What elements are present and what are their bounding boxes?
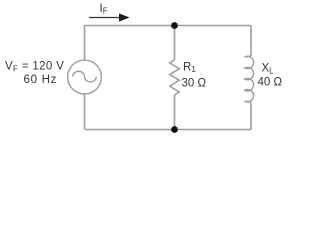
node junction dot bottom xyxy=(171,126,178,133)
resistor R1 zigzag xyxy=(170,60,180,95)
wire top horizontal xyxy=(85,25,252,27)
ac source V_F circle xyxy=(68,60,102,94)
svg-text:40 Ω: 40 Ω xyxy=(258,77,283,89)
wire middle branch top lead xyxy=(174,26,176,61)
wire right branch bottom lead xyxy=(250,104,252,130)
node junction dot top xyxy=(171,22,178,29)
current arrow IF xyxy=(89,17,121,19)
svg-text:60 Hz: 60 Hz xyxy=(24,74,58,86)
wire bottom horizontal xyxy=(85,129,252,131)
svg-text:30 Ω: 30 Ω xyxy=(182,77,207,89)
wire right branch top lead xyxy=(250,26,252,55)
wire middle branch bottom lead xyxy=(174,95,176,130)
wire left vertical lower xyxy=(84,94,86,130)
inductor XL coil xyxy=(245,55,254,104)
ac source sine wave xyxy=(73,71,97,82)
wire left vertical upper xyxy=(84,26,86,61)
